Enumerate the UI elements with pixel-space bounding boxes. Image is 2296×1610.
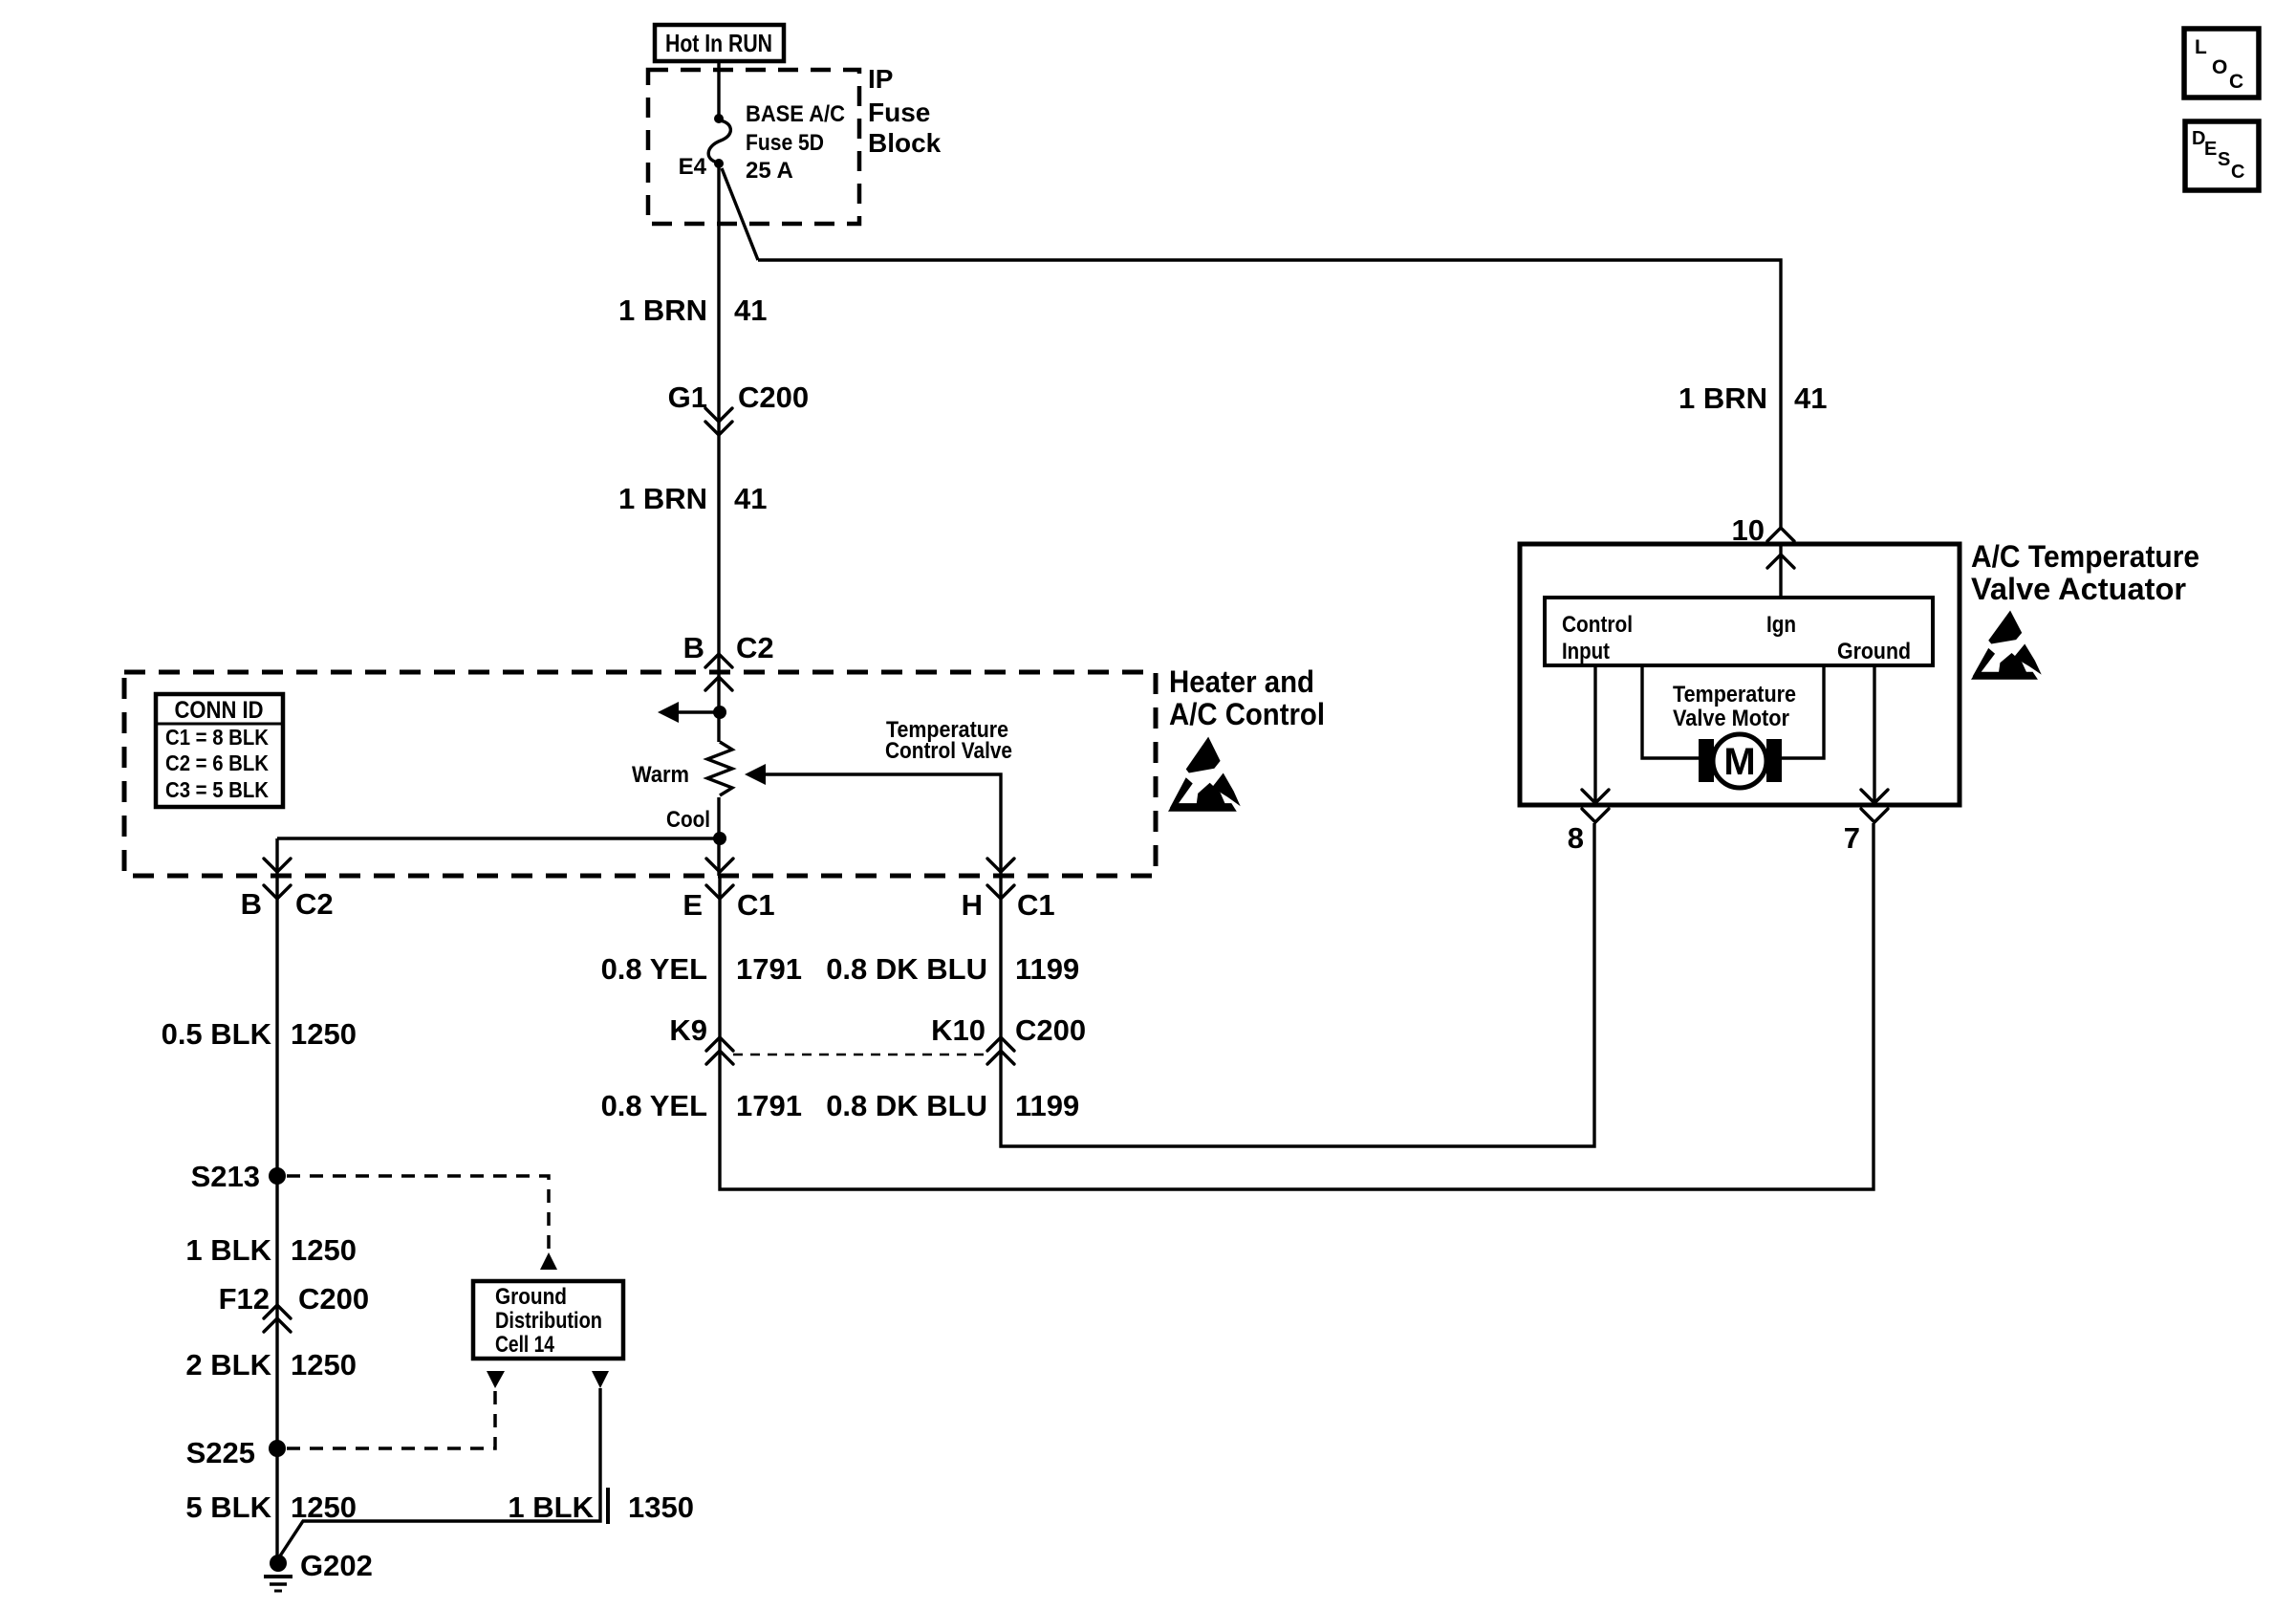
svg-text:S: S	[2218, 149, 2230, 170]
svg-text:C2: C2	[295, 887, 334, 921]
svg-text:C3 = 5 BLK: C3 = 5 BLK	[165, 777, 269, 802]
svg-text:F12: F12	[219, 1282, 270, 1316]
svg-text:1350: 1350	[628, 1490, 694, 1524]
svg-text:Cool: Cool	[666, 807, 710, 833]
svg-text:C1: C1	[737, 888, 775, 922]
svg-text:1199: 1199	[1015, 952, 1079, 986]
svg-text:41: 41	[734, 482, 767, 515]
svg-text:B: B	[241, 887, 262, 921]
svg-text:G1: G1	[668, 381, 707, 414]
svg-text:M: M	[1723, 741, 1755, 783]
svg-text:8: 8	[1568, 821, 1584, 855]
svg-text:Valve Actuator: Valve Actuator	[1971, 572, 2186, 606]
svg-text:C2: C2	[736, 631, 774, 664]
svg-text:O: O	[2212, 56, 2227, 78]
svg-text:0.5 BLK: 0.5 BLK	[162, 1017, 272, 1051]
svg-text:Warm: Warm	[632, 762, 689, 788]
svg-text:A/C Temperature: A/C Temperature	[1971, 539, 2199, 574]
svg-text:Ign: Ign	[1766, 612, 1796, 638]
svg-text:C200: C200	[1015, 1013, 1086, 1047]
svg-text:1250: 1250	[291, 1348, 357, 1382]
svg-text:1250: 1250	[291, 1490, 357, 1524]
svg-text:C: C	[2231, 162, 2244, 183]
svg-text:C200: C200	[738, 381, 809, 414]
svg-text:G202: G202	[300, 1549, 373, 1582]
svg-text:C1: C1	[1017, 888, 1055, 922]
svg-text:Temperature: Temperature	[1673, 682, 1796, 707]
svg-text:H: H	[962, 888, 983, 922]
svg-text:0.8 DK BLU: 0.8 DK BLU	[826, 1089, 987, 1122]
svg-text:1 BRN: 1 BRN	[618, 482, 707, 515]
svg-text:C1 = 8 BLK: C1 = 8 BLK	[165, 725, 269, 750]
svg-text:0.8 YEL: 0.8 YEL	[601, 952, 707, 986]
svg-text:Control: Control	[1562, 612, 1633, 638]
svg-text:5 BLK: 5 BLK	[185, 1490, 271, 1524]
svg-text:1 BRN: 1 BRN	[1679, 381, 1767, 415]
svg-text:Ground: Ground	[1837, 639, 1911, 664]
svg-text:Fuse: Fuse	[868, 98, 930, 127]
svg-text:C200: C200	[298, 1282, 369, 1316]
svg-text:CONN ID: CONN ID	[175, 697, 264, 724]
svg-text:Heater and: Heater and	[1169, 664, 1314, 699]
svg-text:1791: 1791	[736, 1089, 802, 1122]
svg-text:Distribution: Distribution	[495, 1308, 602, 1334]
svg-text:41: 41	[734, 294, 767, 327]
svg-text:1791: 1791	[736, 952, 802, 986]
svg-text:1 BLK: 1 BLK	[185, 1233, 271, 1267]
svg-text:1 BRN: 1 BRN	[618, 294, 707, 327]
svg-text:E4: E4	[679, 154, 707, 180]
svg-text:BASE A/C: BASE A/C	[746, 101, 845, 127]
svg-text:B: B	[683, 631, 704, 664]
svg-text:1250: 1250	[291, 1233, 357, 1267]
svg-text:10: 10	[1732, 513, 1765, 547]
svg-text:S213: S213	[191, 1160, 260, 1193]
svg-text:Control Valve: Control Valve	[885, 738, 1012, 764]
svg-text:IP: IP	[868, 64, 893, 94]
svg-text:1 BLK: 1 BLK	[508, 1490, 594, 1524]
svg-text:E: E	[2204, 139, 2217, 160]
svg-text:Fuse 5D: Fuse 5D	[746, 130, 824, 156]
svg-text:25 A: 25 A	[746, 158, 793, 184]
svg-text:Valve Motor: Valve Motor	[1673, 706, 1789, 731]
svg-text:Cell 14: Cell 14	[495, 1332, 555, 1358]
svg-text:A/C Control: A/C Control	[1169, 697, 1325, 731]
svg-text:0.8 DK BLU: 0.8 DK BLU	[826, 952, 987, 986]
svg-text:1250: 1250	[291, 1017, 357, 1051]
svg-text:C2 = 6 BLK: C2 = 6 BLK	[165, 751, 269, 775]
svg-text:K9: K9	[669, 1013, 707, 1047]
svg-text:1199: 1199	[1015, 1089, 1079, 1122]
svg-text:Block: Block	[868, 128, 942, 158]
svg-text:C: C	[2229, 71, 2243, 93]
svg-text:L: L	[2195, 36, 2207, 58]
svg-text:E: E	[682, 888, 703, 922]
svg-text:2 BLK: 2 BLK	[185, 1348, 271, 1382]
svg-text:0.8 YEL: 0.8 YEL	[601, 1089, 707, 1122]
svg-text:K10: K10	[931, 1013, 986, 1047]
svg-text:41: 41	[1794, 381, 1827, 415]
svg-text:Hot In RUN: Hot In RUN	[665, 29, 772, 57]
svg-text:7: 7	[1844, 821, 1860, 855]
svg-text:Input: Input	[1562, 639, 1610, 664]
svg-text:Ground: Ground	[495, 1284, 567, 1310]
svg-text:S225: S225	[186, 1436, 255, 1469]
